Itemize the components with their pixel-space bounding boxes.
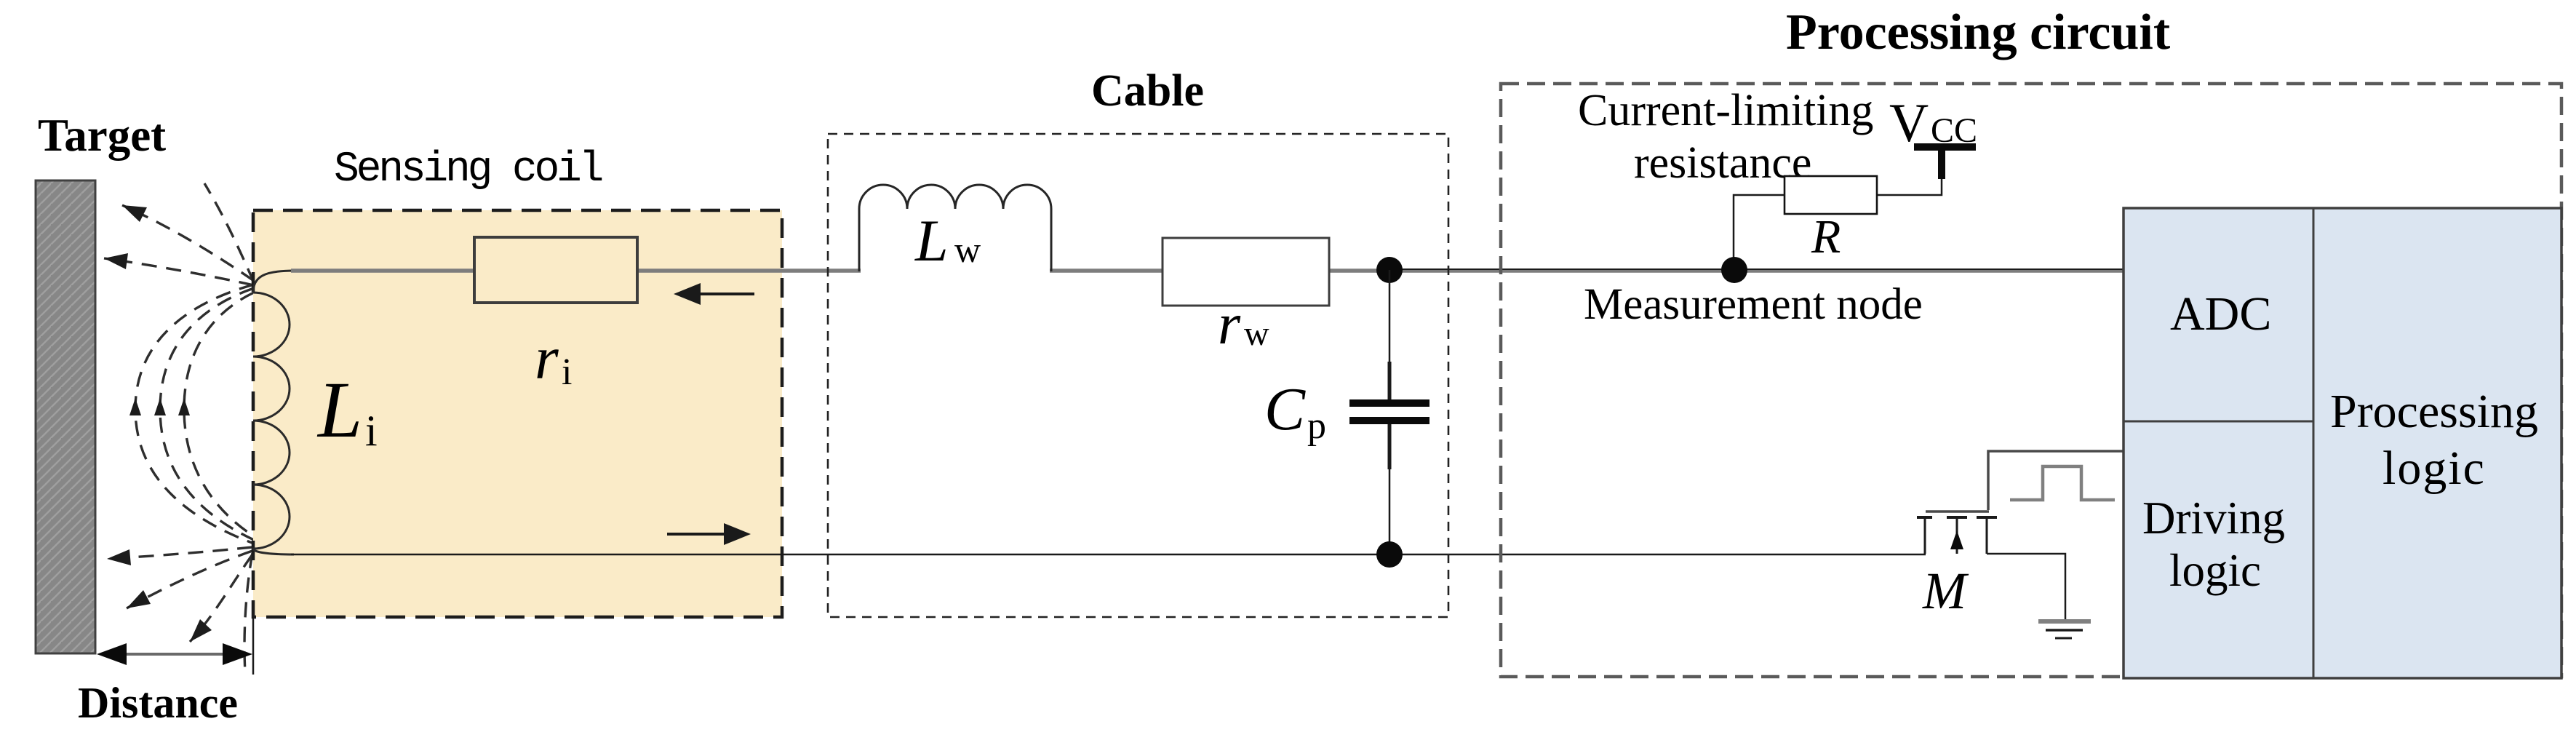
svg-text:p: p xyxy=(1307,405,1326,447)
resistor R xyxy=(1785,176,1877,214)
target plate xyxy=(36,180,95,653)
current arrow bottom (right) xyxy=(667,533,727,536)
wire bottom (coil to Cp node) xyxy=(291,554,1389,556)
logic block xyxy=(2124,208,2561,678)
field ray down steep xyxy=(190,554,252,642)
node cable bottom xyxy=(1376,541,1403,568)
node cable top xyxy=(1376,257,1403,283)
pulse waveform xyxy=(2010,466,2115,500)
svg-text:ADC: ADC xyxy=(2170,287,2271,341)
svg-text:R: R xyxy=(1811,210,1841,263)
divider vertical xyxy=(2313,208,2315,678)
measurement node xyxy=(1721,257,1747,283)
wire top (Lw to rw) xyxy=(1050,268,1165,273)
inductor Lw xyxy=(859,185,1051,271)
field line arc outer xyxy=(135,285,254,544)
field arrow up-left xyxy=(122,205,147,222)
field ray up steep xyxy=(204,183,254,282)
svg-text:Measurement node: Measurement node xyxy=(1584,280,1923,329)
svg-text:Distance: Distance xyxy=(78,679,238,727)
field line arc inner xyxy=(184,293,254,536)
field ray down-left xyxy=(127,551,252,608)
field line arc middle xyxy=(160,288,254,540)
svg-text:Current-limiting: Current-limiting xyxy=(1578,86,1873,135)
ground xyxy=(2038,619,2091,624)
distance arrow xyxy=(120,653,229,656)
svg-text:r: r xyxy=(535,325,559,392)
wire R to node xyxy=(1734,195,1785,270)
divider horizontal xyxy=(2124,421,2313,423)
field arrow down steep xyxy=(190,619,212,642)
svg-text:r: r xyxy=(1218,293,1241,357)
wire top (ri to Lw) xyxy=(634,268,861,273)
wire bottom (Cp node to mosfet) xyxy=(1389,554,1926,556)
resistor ri xyxy=(474,237,637,303)
current arrow top (left) xyxy=(697,293,754,295)
svg-text:logic: logic xyxy=(2382,442,2486,495)
supply Vcc symbol xyxy=(1914,143,1976,151)
inductor Li xyxy=(253,271,294,554)
wire source to ground xyxy=(1987,554,2065,620)
sensing coil box xyxy=(253,210,782,617)
svg-text:i: i xyxy=(365,407,378,455)
wire Vcc to R xyxy=(1877,179,1942,195)
svg-text:Processing circuit: Processing circuit xyxy=(1786,4,2170,60)
field arrow arc inner xyxy=(178,398,190,415)
capacitor Cp xyxy=(1389,270,1391,362)
field ray up-left xyxy=(122,205,254,281)
magnetic field lines xyxy=(104,183,254,673)
wire top (rw to ADC) xyxy=(1326,268,2125,273)
transistor M bulk arrow xyxy=(1950,530,1963,549)
wire top thin overlay (node to ADC) xyxy=(1389,268,2125,270)
processing circuit box xyxy=(1501,84,2561,677)
svg-text:w: w xyxy=(1244,314,1269,353)
cable box xyxy=(828,134,1448,617)
transistor M gate bar xyxy=(1926,510,1989,513)
svg-text:Driving: Driving xyxy=(2142,493,2285,544)
svg-text:C: C xyxy=(1264,375,1306,443)
distance reference line xyxy=(252,617,255,675)
svg-text:Sensing coil: Sensing coil xyxy=(334,146,602,194)
svg-text:L: L xyxy=(914,207,949,274)
transistor M contacts xyxy=(1917,516,1997,519)
svg-text:Cable: Cable xyxy=(1091,66,1204,116)
svg-text:Processing: Processing xyxy=(2330,385,2538,438)
field arrow arc middle xyxy=(154,398,166,415)
field ray left upper xyxy=(104,258,254,285)
field arrow left upper xyxy=(104,253,128,269)
wire gate xyxy=(1988,451,2124,510)
field arrow left lower xyxy=(107,549,131,565)
field arrow arc outer xyxy=(129,398,141,415)
svg-text:i: i xyxy=(562,351,572,393)
svg-text:logic: logic xyxy=(2169,545,2261,596)
field ray down vertical xyxy=(244,553,252,673)
field ray left lower xyxy=(107,547,252,559)
wire top (coil to ri) xyxy=(291,268,477,273)
svg-text:L: L xyxy=(316,365,362,454)
svg-text:Target: Target xyxy=(38,110,166,161)
field arrow down-left xyxy=(127,590,151,608)
svg-text:M: M xyxy=(1922,562,1969,620)
resistor rw xyxy=(1163,238,1329,306)
svg-text:w: w xyxy=(954,229,981,270)
